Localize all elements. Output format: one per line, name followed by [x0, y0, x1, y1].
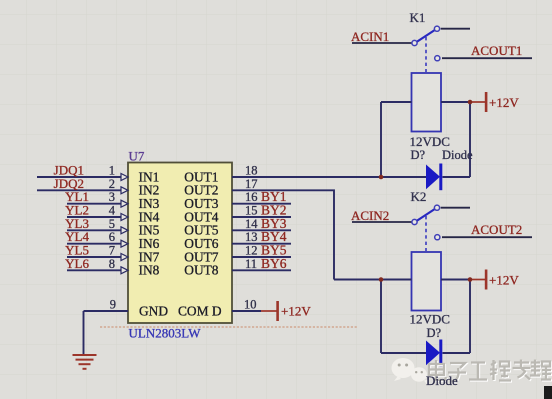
svg-text:OUT8: OUT8 — [184, 263, 219, 278]
svg-text:8: 8 — [109, 257, 115, 271]
svg-text:ACOUT2: ACOUT2 — [471, 222, 522, 237]
svg-text:U7: U7 — [129, 149, 145, 164]
svg-text:5: 5 — [109, 217, 115, 231]
svg-text:BY6: BY6 — [261, 256, 287, 271]
svg-text:ACIN1: ACIN1 — [351, 29, 389, 44]
svg-text:+12V: +12V — [281, 304, 311, 319]
svg-text:7: 7 — [109, 244, 115, 258]
svg-text:14: 14 — [245, 217, 258, 231]
svg-text:D?: D? — [411, 148, 426, 162]
svg-text:K1: K1 — [410, 10, 426, 25]
svg-text:K2: K2 — [411, 189, 427, 204]
svg-text:17: 17 — [245, 177, 258, 191]
svg-text:10: 10 — [244, 298, 257, 312]
svg-text:GND: GND — [139, 304, 168, 319]
svg-text:9: 9 — [110, 298, 116, 312]
svg-text:1: 1 — [109, 164, 115, 178]
svg-text:+12V: +12V — [489, 95, 519, 110]
svg-text:13: 13 — [245, 230, 258, 244]
svg-text:COM D: COM D — [178, 304, 222, 319]
svg-text:IN8: IN8 — [139, 263, 160, 278]
svg-text:YL6: YL6 — [65, 256, 89, 271]
svg-text:16: 16 — [245, 190, 258, 204]
svg-text:ACOUT1: ACOUT1 — [471, 43, 522, 58]
svg-text:ACIN2: ACIN2 — [351, 208, 389, 223]
svg-text:11: 11 — [245, 257, 257, 271]
svg-text:Diode: Diode — [442, 148, 473, 162]
svg-text:+12V: +12V — [489, 273, 519, 288]
svg-text:2: 2 — [109, 177, 115, 191]
svg-text:12: 12 — [245, 244, 258, 258]
svg-text:4: 4 — [109, 204, 116, 218]
svg-text:ULN2803LW: ULN2803LW — [129, 326, 202, 341]
svg-text:12VDC: 12VDC — [410, 134, 450, 149]
svg-text:6: 6 — [109, 230, 115, 244]
svg-text:15: 15 — [245, 204, 258, 218]
svg-text:18: 18 — [245, 164, 258, 178]
svg-text:12VDC: 12VDC — [410, 312, 450, 327]
svg-text:D?: D? — [427, 326, 442, 340]
svg-text:3: 3 — [109, 190, 115, 204]
svg-text:Diode: Diode — [426, 373, 458, 388]
